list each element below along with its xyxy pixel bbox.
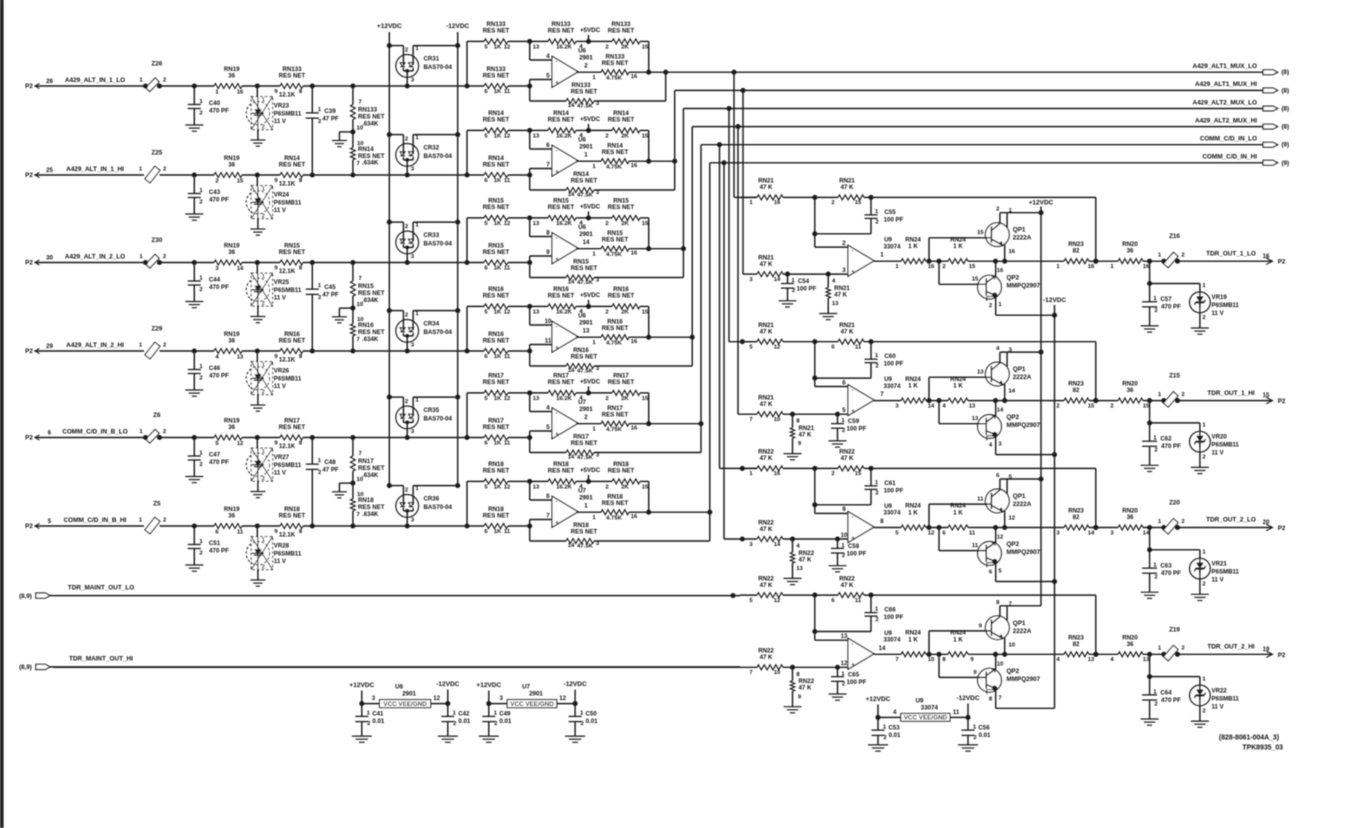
- svg-text:1K: 1K: [494, 354, 502, 360]
- svg-text:82: 82: [1073, 387, 1080, 394]
- svg-text:16.2K: 16.2K: [556, 484, 572, 490]
- svg-text:36: 36: [1127, 641, 1134, 648]
- svg-text:2K: 2K: [621, 44, 629, 50]
- svg-text:36: 36: [228, 424, 235, 431]
- svg-text:12: 12: [504, 221, 511, 227]
- svg-text:15: 15: [1088, 403, 1095, 409]
- svg-text:C56: C56: [978, 724, 990, 731]
- svg-text:0.01: 0.01: [889, 732, 901, 739]
- svg-text:Z30: Z30: [151, 237, 162, 244]
- svg-text:16.2K: 16.2K: [556, 396, 572, 402]
- svg-text:C63: C63: [1160, 563, 1172, 570]
- svg-text:2901: 2901: [579, 143, 593, 150]
- svg-text:COMM_C/D_IN_B_LO: COMM_C/D_IN_B_LO: [62, 428, 127, 435]
- svg-text:RES NET: RES NET: [571, 529, 598, 536]
- svg-text:1K: 1K: [494, 266, 502, 272]
- svg-text:12: 12: [504, 396, 511, 402]
- svg-text:COMM_C/D_IN_HI: COMM_C/D_IN_HI: [1202, 154, 1257, 161]
- svg-text:16: 16: [1088, 264, 1095, 270]
- svg-text:VR20: VR20: [1212, 434, 1228, 441]
- svg-text:(9): (9): [1282, 160, 1290, 167]
- svg-text:+: +: [555, 169, 559, 176]
- svg-text:-12VDC: -12VDC: [1043, 297, 1066, 304]
- svg-text:P2: P2: [25, 172, 33, 179]
- svg-text:16: 16: [928, 264, 935, 270]
- svg-text:1 K: 1 K: [953, 636, 963, 643]
- svg-text:P6SMB11: P6SMB11: [274, 200, 302, 207]
- svg-text:(8,9): (8,9): [19, 664, 32, 671]
- svg-text:47 K: 47 K: [841, 329, 854, 336]
- svg-text:QP2: QP2: [1007, 275, 1020, 282]
- svg-text:CR31: CR31: [424, 56, 440, 63]
- svg-text:+12VDC: +12VDC: [1029, 200, 1054, 207]
- svg-text:P2: P2: [25, 83, 33, 90]
- svg-text:RES NET: RES NET: [358, 465, 385, 472]
- svg-text:11 V: 11 V: [274, 383, 287, 390]
- svg-text:RN17: RN17: [358, 458, 374, 465]
- svg-text:+: +: [851, 269, 855, 276]
- svg-text:16: 16: [997, 268, 1004, 274]
- svg-text:2901: 2901: [402, 690, 416, 697]
- svg-text:47 K: 47 K: [841, 455, 854, 462]
- svg-text:RES NET: RES NET: [279, 337, 306, 344]
- svg-text:RES NET: RES NET: [602, 412, 629, 419]
- svg-text:15: 15: [237, 179, 244, 185]
- svg-text:15: 15: [642, 44, 649, 50]
- svg-text:MMPQ2907: MMPQ2907: [1007, 283, 1041, 290]
- svg-text:C54: C54: [798, 278, 810, 285]
- svg-text:1K: 1K: [494, 178, 502, 184]
- svg-text:+5VDC: +5VDC: [580, 116, 601, 123]
- svg-text:10: 10: [841, 532, 848, 539]
- svg-text:15: 15: [642, 484, 649, 490]
- svg-text:MMPQ2907: MMPQ2907: [1007, 676, 1041, 683]
- svg-text:C46: C46: [209, 365, 221, 372]
- svg-text:1K: 1K: [494, 221, 502, 227]
- svg-text:12: 12: [1009, 516, 1016, 522]
- svg-text:TDR_MAINT_OUT_HI: TDR_MAINT_OUT_HI: [69, 656, 133, 663]
- svg-text:16.2K: 16.2K: [556, 221, 572, 227]
- svg-text:A429_ALT1_MUX_LO: A429_ALT1_MUX_LO: [1192, 63, 1257, 70]
- svg-text:12: 12: [997, 535, 1004, 541]
- svg-text:(8): (8): [1282, 87, 1290, 94]
- svg-text:15: 15: [642, 133, 649, 139]
- svg-text:100 PF: 100 PF: [884, 216, 904, 223]
- svg-text:13: 13: [533, 309, 540, 315]
- svg-text:.634K: .634K: [362, 336, 379, 343]
- svg-text:RES NET: RES NET: [279, 249, 306, 256]
- svg-text:(9): (9): [1282, 142, 1290, 149]
- svg-text:A429_ALT_IN_2_LO: A429_ALT_IN_2_LO: [65, 253, 125, 260]
- svg-text:1 K: 1 K: [953, 510, 963, 517]
- svg-text:100 PF: 100 PF: [847, 679, 867, 686]
- svg-text:C51: C51: [209, 540, 221, 547]
- svg-text:+: +: [851, 535, 855, 542]
- svg-text:RN14: RN14: [358, 146, 374, 153]
- svg-text:14: 14: [774, 277, 781, 283]
- svg-text:RES NET: RES NET: [483, 379, 510, 386]
- svg-text:MMPQ2907: MMPQ2907: [1007, 549, 1041, 556]
- svg-text:4.75K: 4.75K: [606, 165, 622, 171]
- svg-text:11: 11: [855, 598, 862, 604]
- svg-text:2901: 2901: [579, 231, 593, 238]
- svg-text:RES NET: RES NET: [483, 28, 510, 35]
- svg-text:VCC VEE/GND: VCC VEE/GND: [383, 701, 427, 708]
- svg-text:QP1: QP1: [1013, 493, 1026, 500]
- svg-text:.634K: .634K: [362, 472, 379, 479]
- svg-text:P6SMB11: P6SMB11: [274, 551, 302, 558]
- svg-text:VCC VEE/GND: VCC VEE/GND: [904, 714, 948, 721]
- svg-text:16: 16: [631, 74, 638, 80]
- svg-text:Z26: Z26: [151, 61, 162, 68]
- svg-text:11: 11: [953, 709, 960, 716]
- svg-text:A429_ALT_IN_2_HI: A429_ALT_IN_2_HI: [66, 342, 124, 349]
- svg-text:100 PF: 100 PF: [884, 487, 904, 494]
- svg-text:13: 13: [237, 355, 244, 361]
- svg-text:Z6: Z6: [153, 412, 161, 419]
- svg-text:47.5K: 47.5K: [577, 103, 593, 109]
- svg-text:+: +: [555, 345, 559, 352]
- svg-text:+: +: [555, 431, 559, 438]
- svg-text:14: 14: [1009, 389, 1016, 395]
- svg-text:1K: 1K: [494, 133, 502, 139]
- svg-text:14: 14: [928, 403, 935, 409]
- svg-text:36: 36: [1127, 387, 1134, 394]
- svg-text:RN15: RN15: [358, 283, 374, 290]
- svg-text:13: 13: [796, 566, 803, 572]
- svg-text:2K: 2K: [621, 133, 629, 139]
- svg-text:P2: P2: [25, 523, 33, 530]
- svg-text:470 PF: 470 PF: [209, 548, 229, 555]
- svg-text:11 V: 11 V: [274, 118, 287, 125]
- svg-text:RES NET: RES NET: [602, 149, 629, 156]
- svg-text:12: 12: [504, 44, 511, 50]
- svg-text:RES NET: RES NET: [571, 440, 598, 447]
- svg-text:47 K: 47 K: [760, 261, 773, 268]
- svg-text:C58: C58: [848, 543, 860, 550]
- svg-text:C44: C44: [209, 277, 221, 284]
- svg-text:12: 12: [559, 695, 566, 702]
- svg-text:TDR_OUT_2_LO: TDR_OUT_2_LO: [1206, 517, 1256, 524]
- svg-text:12: 12: [504, 309, 511, 315]
- svg-text:RES NET: RES NET: [279, 72, 306, 79]
- svg-text:14: 14: [583, 239, 590, 246]
- svg-text:2901: 2901: [579, 54, 593, 61]
- svg-text:16: 16: [631, 251, 638, 257]
- svg-text:C41: C41: [372, 711, 384, 718]
- svg-text:RES NET: RES NET: [483, 293, 510, 300]
- svg-text:VR21: VR21: [1212, 561, 1228, 568]
- svg-text:4.75K: 4.75K: [606, 516, 622, 522]
- svg-text:+: +: [555, 80, 559, 87]
- svg-text:1K: 1K: [494, 484, 502, 490]
- svg-text:-: -: [555, 148, 557, 155]
- svg-text:P6SMB11: P6SMB11: [1212, 569, 1240, 576]
- svg-text:12: 12: [774, 598, 781, 604]
- svg-text:RES NET: RES NET: [608, 204, 635, 211]
- svg-text:13: 13: [533, 133, 540, 139]
- svg-text:VR28: VR28: [274, 543, 290, 550]
- svg-text:P6SMB11: P6SMB11: [274, 376, 302, 383]
- svg-text:C40: C40: [209, 100, 221, 107]
- svg-text:QP2: QP2: [1007, 668, 1020, 675]
- svg-text:470 PF: 470 PF: [209, 197, 229, 204]
- svg-text:11 V: 11 V: [274, 558, 287, 565]
- svg-text:CR33: CR33: [424, 232, 440, 239]
- svg-text:16.2K: 16.2K: [556, 44, 572, 50]
- svg-text:14: 14: [774, 542, 781, 548]
- svg-text:13: 13: [533, 396, 540, 402]
- svg-text:A429_ALT1_MUX_HI: A429_ALT1_MUX_HI: [1195, 81, 1257, 88]
- svg-text:RES NET: RES NET: [608, 468, 635, 475]
- svg-text:0.01: 0.01: [499, 718, 511, 725]
- svg-text:16: 16: [1263, 253, 1270, 260]
- svg-text:2K: 2K: [621, 221, 629, 227]
- svg-text:RES NET: RES NET: [608, 28, 635, 35]
- svg-text:Z25: Z25: [151, 150, 162, 157]
- svg-text:RES NET: RES NET: [483, 161, 510, 168]
- svg-text:16: 16: [774, 200, 781, 206]
- svg-text:10: 10: [774, 670, 781, 676]
- svg-text:+5VDC: +5VDC: [580, 203, 601, 210]
- svg-text:15: 15: [642, 221, 649, 227]
- svg-text:47 K: 47 K: [841, 184, 854, 191]
- svg-text:(8): (8): [1282, 69, 1290, 76]
- svg-text:12.1K: 12.1K: [279, 268, 296, 275]
- svg-text:+12VDC: +12VDC: [349, 682, 374, 689]
- svg-text:VR19: VR19: [1212, 294, 1228, 301]
- svg-text:Z29: Z29: [151, 326, 162, 333]
- svg-text:10: 10: [357, 126, 364, 132]
- svg-text:11: 11: [237, 530, 244, 536]
- svg-text:VR26: VR26: [274, 368, 290, 375]
- svg-text:2901: 2901: [529, 690, 543, 697]
- svg-text:-: -: [851, 387, 853, 394]
- svg-text:16: 16: [631, 426, 638, 432]
- svg-text:QP1: QP1: [1013, 366, 1026, 373]
- svg-text:14: 14: [997, 408, 1004, 414]
- svg-text:+5VDC: +5VDC: [580, 292, 601, 299]
- svg-text:RES NET: RES NET: [483, 204, 510, 211]
- svg-text:QP2: QP2: [1007, 541, 1020, 548]
- svg-text:TDR_MAINT_OUT_LO: TDR_MAINT_OUT_LO: [68, 584, 134, 591]
- svg-text:P6SMB11: P6SMB11: [1212, 442, 1240, 449]
- svg-text:BAS70-04: BAS70-04: [424, 329, 453, 336]
- svg-text:TDR_OUT_1_LO: TDR_OUT_1_LO: [1206, 250, 1256, 257]
- svg-text:A429_ALT_IN_1_HI: A429_ALT_IN_1_HI: [66, 166, 124, 173]
- svg-text:100 PF: 100 PF: [847, 426, 867, 433]
- svg-text:RES NET: RES NET: [548, 379, 575, 386]
- svg-text:16: 16: [774, 471, 781, 477]
- svg-text:RES NET: RES NET: [602, 237, 629, 244]
- svg-text:47.5K: 47.5K: [577, 192, 593, 198]
- svg-text:(828-8061-004A_3): (828-8061-004A_3): [1219, 735, 1279, 742]
- svg-text:C39: C39: [324, 108, 336, 115]
- svg-text:P2: P2: [25, 260, 33, 267]
- svg-text:TDR_OUT_2_HI: TDR_OUT_2_HI: [1207, 644, 1254, 651]
- svg-text:15: 15: [855, 200, 862, 206]
- svg-text:RES NET: RES NET: [571, 178, 598, 185]
- svg-text:10: 10: [928, 657, 935, 663]
- svg-text:14: 14: [1088, 530, 1095, 536]
- svg-text:16: 16: [1009, 249, 1016, 255]
- svg-text:BAS70-04: BAS70-04: [424, 416, 453, 423]
- svg-text:16: 16: [237, 90, 244, 96]
- svg-text:C53: C53: [888, 724, 900, 731]
- svg-text:.634K: .634K: [362, 297, 379, 304]
- svg-text:0.01: 0.01: [458, 718, 470, 725]
- svg-text:47 K: 47 K: [760, 582, 773, 589]
- svg-text:10: 10: [774, 417, 781, 423]
- svg-text:1 K: 1 K: [908, 510, 918, 517]
- svg-text:+: +: [555, 256, 559, 263]
- svg-text:10: 10: [545, 318, 552, 325]
- svg-text:12.1K: 12.1K: [279, 92, 296, 99]
- svg-text:P6SMB11: P6SMB11: [1212, 302, 1240, 309]
- svg-text:100 PF: 100 PF: [884, 361, 904, 368]
- svg-text:470 PF: 470 PF: [1161, 570, 1181, 577]
- svg-text:15: 15: [972, 277, 979, 283]
- svg-text:C64: C64: [1160, 689, 1172, 696]
- svg-text:47 PF: 47 PF: [322, 115, 339, 122]
- svg-text:33074: 33074: [884, 637, 902, 644]
- svg-text:15: 15: [642, 396, 649, 402]
- svg-text:15: 15: [969, 264, 976, 270]
- svg-text:A429_ALT2_MUX_LO: A429_ALT2_MUX_LO: [1192, 99, 1257, 106]
- svg-text:12.1K: 12.1K: [279, 181, 296, 188]
- svg-text:2901: 2901: [579, 494, 593, 501]
- svg-text:P6SMB11: P6SMB11: [274, 287, 302, 294]
- svg-text:11: 11: [504, 89, 511, 95]
- svg-text:-: -: [555, 235, 557, 242]
- svg-text:+5VDC: +5VDC: [580, 27, 601, 34]
- svg-text:-12VDC: -12VDC: [446, 23, 469, 30]
- svg-text:12.1K: 12.1K: [279, 357, 296, 364]
- svg-text:47 K: 47 K: [760, 184, 773, 191]
- svg-text:Z16: Z16: [1169, 233, 1180, 240]
- svg-text:11: 11: [504, 354, 511, 360]
- svg-text:36: 36: [1127, 514, 1134, 521]
- svg-text:33074: 33074: [884, 383, 902, 390]
- svg-text:C57: C57: [1160, 296, 1172, 303]
- svg-text:P2: P2: [1278, 259, 1286, 266]
- svg-text:36: 36: [228, 249, 235, 256]
- svg-text:P2: P2: [1278, 398, 1286, 405]
- svg-text:47.5K: 47.5K: [577, 368, 593, 374]
- svg-text:2K: 2K: [621, 396, 629, 402]
- svg-text:36: 36: [228, 512, 235, 519]
- svg-text:11: 11: [969, 530, 976, 536]
- svg-text:A429_ALT2_MUX_HI: A429_ALT2_MUX_HI: [1195, 117, 1257, 124]
- svg-text:2222A: 2222A: [1013, 235, 1032, 242]
- svg-text:12: 12: [237, 441, 244, 447]
- svg-text:470 PF: 470 PF: [1161, 304, 1181, 311]
- svg-text:CR32: CR32: [424, 145, 440, 152]
- svg-text:1K: 1K: [494, 529, 502, 535]
- svg-text:36: 36: [228, 337, 235, 344]
- svg-text:VCC VEE/GND: VCC VEE/GND: [510, 701, 554, 708]
- svg-text:470 PF: 470 PF: [209, 108, 229, 115]
- svg-text:4.75K: 4.75K: [606, 427, 622, 433]
- svg-text:4.75K: 4.75K: [606, 252, 622, 258]
- svg-text:+12VDC: +12VDC: [866, 696, 891, 703]
- svg-text:1K: 1K: [494, 89, 502, 95]
- svg-text:14: 14: [879, 645, 886, 652]
- svg-text:30: 30: [46, 254, 53, 261]
- svg-text:14: 14: [568, 368, 575, 374]
- svg-text:12.1K: 12.1K: [279, 443, 296, 450]
- svg-text:12: 12: [504, 133, 511, 139]
- svg-text:470 PF: 470 PF: [209, 373, 229, 380]
- svg-text:RES NET: RES NET: [608, 293, 635, 300]
- svg-text:11: 11: [504, 441, 511, 447]
- svg-text:47.5K: 47.5K: [577, 543, 593, 549]
- svg-text:COMM_C/D_IN_LO: COMM_C/D_IN_LO: [1200, 136, 1257, 143]
- svg-text:-: -: [555, 499, 557, 506]
- svg-text:1 K: 1 K: [953, 243, 963, 250]
- svg-text:P6SMB11: P6SMB11: [274, 462, 302, 469]
- svg-text:1K: 1K: [494, 396, 502, 402]
- svg-text:BAS70-04: BAS70-04: [424, 504, 453, 511]
- svg-text:19: 19: [1263, 646, 1270, 653]
- svg-text:33074: 33074: [921, 704, 939, 711]
- svg-text:MMPQ2907: MMPQ2907: [1007, 422, 1041, 429]
- svg-text:Z19: Z19: [1169, 626, 1180, 633]
- svg-text:RES NET: RES NET: [483, 249, 510, 256]
- svg-text:RES NET: RES NET: [548, 468, 575, 475]
- svg-text:47 K: 47 K: [799, 556, 812, 563]
- svg-text:14: 14: [568, 454, 575, 460]
- svg-text:A429_ALT_IN_1_LO: A429_ALT_IN_1_LO: [65, 77, 125, 84]
- svg-text:1 K: 1 K: [908, 636, 918, 643]
- svg-text:COMM_C/D_IN_B_HI: COMM_C/D_IN_B_HI: [64, 517, 127, 524]
- svg-text:Z5: Z5: [153, 501, 161, 508]
- svg-text:0.01: 0.01: [586, 718, 598, 725]
- svg-text:36: 36: [228, 161, 235, 168]
- svg-text:RES NET: RES NET: [483, 337, 510, 344]
- svg-text:P2: P2: [25, 435, 33, 442]
- svg-text:CR35: CR35: [424, 407, 440, 414]
- svg-text:13: 13: [583, 328, 590, 335]
- svg-text:0.01: 0.01: [372, 718, 384, 725]
- svg-text:100 PF: 100 PF: [847, 551, 867, 558]
- svg-text:RN18: RN18: [358, 497, 374, 504]
- svg-text:(8): (8): [1282, 106, 1290, 113]
- svg-text:11: 11: [504, 266, 511, 272]
- svg-text:11 V: 11 V: [1212, 703, 1225, 710]
- svg-text:P6SMB11: P6SMB11: [274, 111, 302, 118]
- svg-text:26: 26: [46, 78, 53, 85]
- svg-text:11 V: 11 V: [274, 295, 287, 302]
- svg-text:(8,9): (8,9): [19, 593, 32, 600]
- svg-text:11 V: 11 V: [1212, 577, 1225, 584]
- svg-text:12: 12: [841, 660, 848, 667]
- svg-text:11: 11: [972, 543, 979, 549]
- svg-text:RES NET: RES NET: [483, 468, 510, 475]
- svg-text:+5VDC: +5VDC: [580, 378, 601, 385]
- svg-text:13: 13: [1088, 657, 1095, 663]
- svg-text:-: -: [851, 514, 853, 521]
- svg-text:QP1: QP1: [1013, 620, 1026, 627]
- svg-text:BAS70-04: BAS70-04: [424, 241, 453, 248]
- svg-text:47 K: 47 K: [799, 432, 812, 439]
- svg-text:RES NET: RES NET: [483, 512, 510, 519]
- svg-text:C61: C61: [884, 480, 896, 487]
- svg-text:+: +: [555, 520, 559, 527]
- svg-text:13: 13: [972, 416, 979, 422]
- svg-text:TDR_OUT_1_HI: TDR_OUT_1_HI: [1207, 390, 1254, 397]
- svg-text:11 V: 11 V: [1212, 450, 1225, 457]
